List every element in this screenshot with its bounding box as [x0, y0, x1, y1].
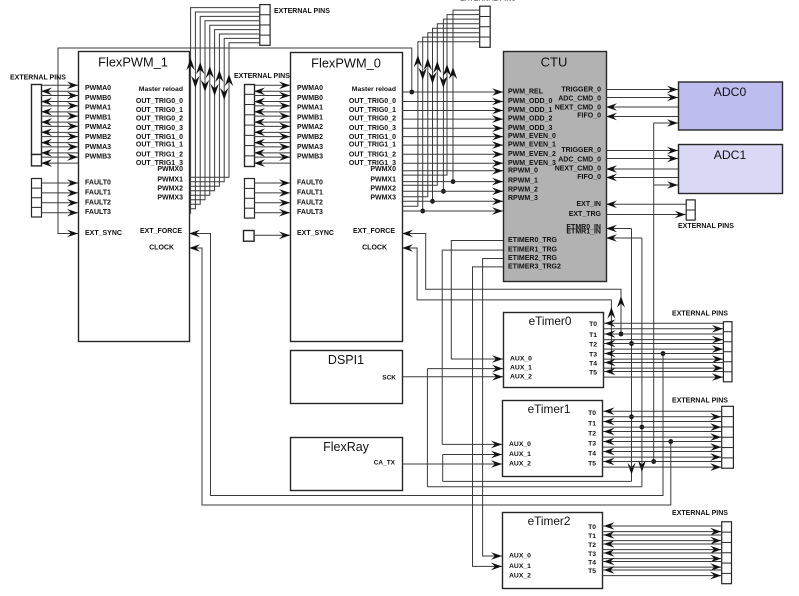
svg-text:EXTERNAL PINS: EXTERNAL PINS: [460, 0, 516, 2]
svg-text:T4: T4: [588, 560, 596, 567]
svg-text:EXT_SYNC: EXT_SYNC: [297, 230, 334, 237]
wires eTimer0 T0-T5 external pins: [603, 322, 723, 324]
svg-text:EXT_SYNC: EXT_SYNC: [85, 230, 122, 237]
svg-text:TRIGGER_0: TRIGGER_0: [561, 147, 601, 154]
wire ETMR1_IN chain to eTimer0 AUX_1: [606, 237, 642, 239]
svg-text:PWM_REL: PWM_REL: [508, 89, 544, 96]
PWM A/B bidirectional wires FlexPWM_1: [41, 84, 78, 86]
svg-text:PWM_EVEN_1: PWM_EVEN_1: [508, 142, 556, 149]
wires OUT_TRIG/PWMX rows FlexPWM_0 to CTU: [402, 101, 503, 103]
block eTimer0: [504, 313, 604, 388]
svg-text:PWMB3: PWMB3: [297, 154, 323, 161]
svg-text:AUX_2: AUX_2: [510, 373, 532, 380]
block ADC1: [679, 145, 783, 194]
svg-text:PWMA1: PWMA1: [297, 105, 323, 112]
svg-text:OUT_TRIG1_2: OUT_TRIG1_2: [349, 151, 396, 158]
svg-text:FAULT1: FAULT1: [297, 189, 323, 196]
wire ETIMER1_TRG to eTimer1 AUX_0: [442, 249, 503, 251]
svg-text:AUX_1: AUX_1: [509, 451, 531, 458]
svg-text:PWM_ODD_2: PWM_ODD_2: [508, 116, 552, 123]
svg-text:EXT_TRG: EXT_TRG: [569, 211, 602, 218]
svg-text:PWMX2: PWMX2: [157, 186, 183, 193]
block FlexRay: [291, 438, 403, 491]
svg-text:AUX_0: AUX_0: [510, 356, 532, 363]
svg-text:PWMB0: PWMB0: [85, 95, 111, 102]
svg-text:eTimer0: eTimer0: [529, 314, 572, 328]
wire eTimer0 T5 to FlexPWM_0 CLOCK: [402, 248, 611, 372]
svg-text:PWMX1: PWMX1: [370, 177, 396, 184]
svg-text:FAULT0: FAULT0: [85, 180, 111, 187]
svg-text:ETIMER0_TRG: ETIMER0_TRG: [508, 237, 558, 244]
svg-text:EXT_IN: EXT_IN: [576, 201, 601, 208]
block FlexPWM_1: [79, 52, 190, 342]
svg-text:RPWM_0: RPWM_0: [508, 167, 538, 174]
svg-text:T5: T5: [589, 370, 597, 377]
svg-text:SCK: SCK: [382, 375, 396, 382]
external pins stack FAULT (FlexPWM_0): [245, 179, 255, 219]
wire ext trigger to ADC0: [654, 122, 678, 124]
svg-text:PWMA2: PWMA2: [85, 124, 111, 131]
wire EXT_SYNC FlexPWM_0: [254, 234, 290, 236]
svg-text:T1: T1: [588, 533, 596, 540]
wire eTimer1 T3 to FlexPWM_1 CLOCK: [189, 248, 671, 505]
svg-text:ADC_CMD_0: ADC_CMD_0: [558, 157, 601, 164]
block FlexPWM_0: [291, 53, 403, 342]
svg-text:PWM_EVEN_3: PWM_EVEN_3: [508, 160, 556, 167]
wires FlexPWM_0 staircase junction verticals: [423, 37, 480, 211]
svg-text:T0: T0: [588, 410, 596, 417]
svg-text:PWMX0: PWMX0: [157, 166, 183, 173]
svg-text:T2: T2: [588, 431, 596, 438]
svg-text:EXTERNAL PINS: EXTERNAL PINS: [678, 223, 734, 230]
svg-text:EXTERNAL PINS: EXTERNAL PINS: [672, 398, 728, 405]
svg-text:T3: T3: [589, 352, 597, 359]
wire ETIMER0_TRG to eTimer0 AUX_0: [451, 241, 503, 360]
wire CA_TX to eTimer1 AUX_2: [402, 463, 502, 465]
svg-text:T1: T1: [589, 332, 597, 339]
svg-text:T1: T1: [588, 421, 596, 428]
svg-text:eTimer2: eTimer2: [528, 514, 571, 528]
svg-text:NEXT_CMD_0: NEXT_CMD_0: [555, 104, 601, 111]
wire ADC_CMD_0 to ADC0: [606, 97, 678, 99]
arrowheads on FlexPWM_0 staircase verticals: [414, 55, 422, 67]
wire ETMR0_IN chain to eTimer1 AUX_1: [606, 228, 632, 230]
svg-text:RPWM_2: RPWM_2: [508, 187, 538, 194]
svg-text:FAULT3: FAULT3: [85, 209, 111, 216]
svg-text:T5: T5: [588, 568, 596, 575]
FAULT input wires FlexPWM_1: [41, 182, 78, 184]
svg-text:PWMX3: PWMX3: [157, 195, 183, 202]
svg-text:T3: T3: [588, 551, 596, 558]
wire master reload sync chain: [58, 48, 412, 234]
svg-text:PWM_EVEN_0: PWM_EVEN_0: [508, 133, 556, 140]
svg-text:AUX_0: AUX_0: [509, 441, 531, 448]
svg-text:PWMB1: PWMB1: [297, 114, 323, 121]
svg-text:TRIGGER_0: TRIGGER_0: [561, 87, 601, 94]
svg-text:FAULT0: FAULT0: [297, 180, 323, 187]
wire TRIGGER_0 to ADC1: [606, 150, 678, 152]
svg-text:CLOCK: CLOCK: [149, 245, 174, 252]
svg-text:ETIMER2_TRG: ETIMER2_TRG: [508, 255, 558, 262]
wire ETIMER2_TRG to eTimer2 AUX_0: [483, 259, 503, 557]
svg-text:Master reload: Master reload: [352, 86, 396, 93]
wires FlexPWM_1 PWMX/OUT_TRIG to external pins staircase: [189, 8, 259, 214]
svg-text:NEXT_CMD_0: NEXT_CMD_0: [555, 166, 601, 173]
vertical ext trigger line to eTimer1 T5: [653, 123, 655, 462]
svg-text:OUT_TRIG1_1: OUT_TRIG1_1: [349, 142, 396, 149]
svg-text:OUT_TRIG0_3: OUT_TRIG0_3: [349, 125, 396, 132]
svg-text:T2: T2: [588, 542, 596, 549]
svg-text:OUT_TRIG0_1: OUT_TRIG0_1: [349, 107, 396, 114]
wire TRIGGER_0 to ADC0: [606, 89, 678, 91]
svg-text:OUT_TRIG1_2: OUT_TRIG1_2: [136, 151, 183, 158]
svg-text:AUX_2: AUX_2: [509, 573, 531, 580]
svg-text:PWMA1: PWMA1: [85, 105, 111, 112]
external pins stack top-left (FlexPWM_1): [260, 5, 270, 46]
svg-text:PWMX0: PWMX0: [370, 166, 396, 173]
svg-text:OUT_TRIG0_1: OUT_TRIG0_1: [136, 107, 183, 114]
svg-text:OUT_TRIG0_0: OUT_TRIG0_0: [136, 98, 183, 105]
svg-text:ETIMER1_TRG: ETIMER1_TRG: [508, 247, 558, 254]
svg-text:OUT_TRIG1_0: OUT_TRIG1_0: [349, 134, 396, 141]
svg-text:PWMA3: PWMA3: [297, 144, 323, 151]
svg-text:DSPI1: DSPI1: [328, 353, 364, 367]
external pin box EXT_SYNC (FlexPWM_0): [244, 231, 255, 242]
wire FIFO_0 from ADC0: [606, 116, 678, 118]
svg-text:PWMX3: PWMX3: [370, 195, 396, 202]
svg-text:ETIMER3_TRG2: ETIMER3_TRG2: [508, 263, 561, 270]
svg-text:T0: T0: [589, 321, 597, 328]
svg-text:EXTERNAL PINS: EXTERNAL PINS: [234, 73, 290, 80]
external pins stack eTimer2: [722, 522, 732, 584]
svg-text:PWMA2: PWMA2: [297, 124, 323, 131]
svg-text:CTU: CTU: [541, 55, 568, 70]
svg-text:PWMA0: PWMA0: [85, 85, 111, 92]
svg-text:OUT_TRIG0_0: OUT_TRIG0_0: [349, 98, 396, 105]
wire eTimer0 T3 to FlexPWM_1 EXT_FORCE: [189, 234, 663, 496]
svg-text:OUT_TRIG0_2: OUT_TRIG0_2: [349, 116, 396, 123]
wire SCK to eTimer0 AUX_2: [402, 376, 503, 378]
svg-text:ADC0: ADC0: [714, 85, 747, 99]
svg-text:EXT_FORCE: EXT_FORCE: [353, 228, 395, 235]
svg-text:T4: T4: [589, 361, 597, 368]
svg-text:EXTERNAL PINS: EXTERNAL PINS: [672, 510, 728, 517]
block eTimer2: [503, 513, 603, 589]
wire NEXT_CMD_0 from ADC0: [606, 106, 678, 108]
svg-text:PWMA3: PWMA3: [85, 144, 111, 151]
svg-text:FAULT1: FAULT1: [85, 189, 111, 196]
svg-text:PWM_ODD_3: PWM_ODD_3: [508, 125, 552, 132]
wire eTimer0 T1 to FlexPWM_0 EXT_FORCE: [402, 234, 621, 335]
svg-text:FlexRay: FlexRay: [323, 440, 370, 454]
svg-text:EXT_FORCE: EXT_FORCE: [140, 228, 182, 235]
block DSPI1: [291, 351, 403, 404]
svg-text:AUX_0: AUX_0: [509, 553, 531, 560]
svg-text:T3: T3: [588, 441, 596, 448]
svg-text:AUX_1: AUX_1: [510, 365, 532, 372]
svg-text:PWMB2: PWMB2: [297, 134, 323, 141]
external pins stack eTimer1: [722, 406, 734, 468]
svg-text:EXTERNAL PINS: EXTERNAL PINS: [274, 8, 330, 15]
wire ADC_CMD_0 to ADC1: [606, 158, 678, 160]
svg-text:OUT_TRIG0_3: OUT_TRIG0_3: [136, 125, 183, 132]
svg-text:CLOCK: CLOCK: [362, 245, 387, 252]
svg-text:PWM_EVEN_2: PWM_EVEN_2: [508, 151, 556, 158]
FAULT input wires FlexPWM_0: [254, 182, 290, 184]
external pins stack left PWM (FlexPWM_0): [245, 85, 255, 167]
svg-text:ADC1: ADC1: [714, 148, 747, 162]
svg-text:RPWM_3: RPWM_3: [508, 195, 538, 202]
svg-text:PWM_ODD_1: PWM_ODD_1: [508, 107, 552, 114]
PWM A/B bidirectional wires FlexPWM_0: [254, 84, 290, 86]
svg-text:FIFO_0: FIFO_0: [577, 174, 601, 181]
svg-text:EXTERNAL PINS: EXTERNAL PINS: [672, 311, 728, 318]
svg-text:PWMB2: PWMB2: [85, 134, 111, 141]
svg-text:FIFO_0: FIFO_0: [577, 113, 601, 120]
external pins stack ADC ext: [686, 200, 695, 220]
svg-text:PWMA0: PWMA0: [297, 85, 323, 92]
svg-text:OUT_TRIG1_0: OUT_TRIG1_0: [136, 134, 183, 141]
svg-text:PWMX2: PWMX2: [370, 186, 396, 193]
wire FIFO_0 from ADC1: [606, 177, 678, 179]
external pins stack top-mid (FlexPWM_0): [480, 6, 491, 47]
svg-text:RPWM_1: RPWM_1: [508, 177, 538, 184]
wire EXT_IN from pins: [606, 203, 686, 205]
svg-text:PWMB1: PWMB1: [85, 114, 111, 121]
wire ETIMER3_TRG2 to eTimer2 AUX_1: [473, 267, 504, 567]
wire EXT_TRG to pins: [606, 214, 686, 216]
svg-text:T4: T4: [588, 451, 596, 458]
block eTimer1: [503, 401, 603, 477]
wire PWM_REL row: [402, 91, 503, 93]
svg-text:FlexPWM_1: FlexPWM_1: [98, 55, 168, 70]
svg-text:CA_TX: CA_TX: [374, 460, 396, 467]
wire ext trigger to ADC1: [654, 184, 678, 186]
svg-text:T5: T5: [588, 461, 596, 468]
svg-text:PWMX1: PWMX1: [157, 177, 183, 184]
svg-text:OUT_TRIG0_2: OUT_TRIG0_2: [136, 116, 183, 123]
external pins stack left PWM (FlexPWM_1): [32, 85, 42, 155]
wires FlexPWM_0 staircase stub verticals: [402, 42, 479, 207]
svg-text:ETMR1_IN: ETMR1_IN: [566, 228, 601, 235]
svg-text:PWMB0: PWMB0: [297, 95, 323, 102]
svg-text:PWM_ODD_0: PWM_ODD_0: [508, 98, 552, 105]
svg-text:eTimer1: eTimer1: [528, 402, 571, 416]
svg-text:OUT_TRIG1_1: OUT_TRIG1_1: [136, 142, 183, 149]
svg-text:T0: T0: [588, 524, 596, 531]
external pins stack FAULT (FlexPWM_1): [32, 179, 42, 218]
svg-text:Master reload: Master reload: [139, 86, 183, 93]
svg-text:FlexPWM_0: FlexPWM_0: [311, 56, 381, 71]
block CTU: [504, 52, 607, 282]
wires eTimer2 T0-T5 external pins: [602, 525, 721, 527]
svg-text:FAULT2: FAULT2: [85, 199, 111, 206]
external pins stack eTimer0: [723, 322, 732, 382]
wire NEXT_CMD_0 from ADC1: [606, 168, 678, 170]
svg-text:FAULT3: FAULT3: [297, 209, 323, 216]
arrowheads on FlexPWM_1 staircase verticals: [186, 58, 194, 70]
svg-text:AUX_2: AUX_2: [509, 461, 531, 468]
svg-text:AUX_1: AUX_1: [509, 563, 531, 570]
svg-text:ADC_CMD_0: ADC_CMD_0: [558, 96, 601, 103]
wires eTimer1 T0-T5 external pins: [602, 410, 721, 412]
svg-text:T2: T2: [589, 342, 597, 349]
block ADC0: [679, 82, 783, 130]
svg-text:FAULT2: FAULT2: [297, 199, 323, 206]
svg-text:PWMB3: PWMB3: [85, 154, 111, 161]
